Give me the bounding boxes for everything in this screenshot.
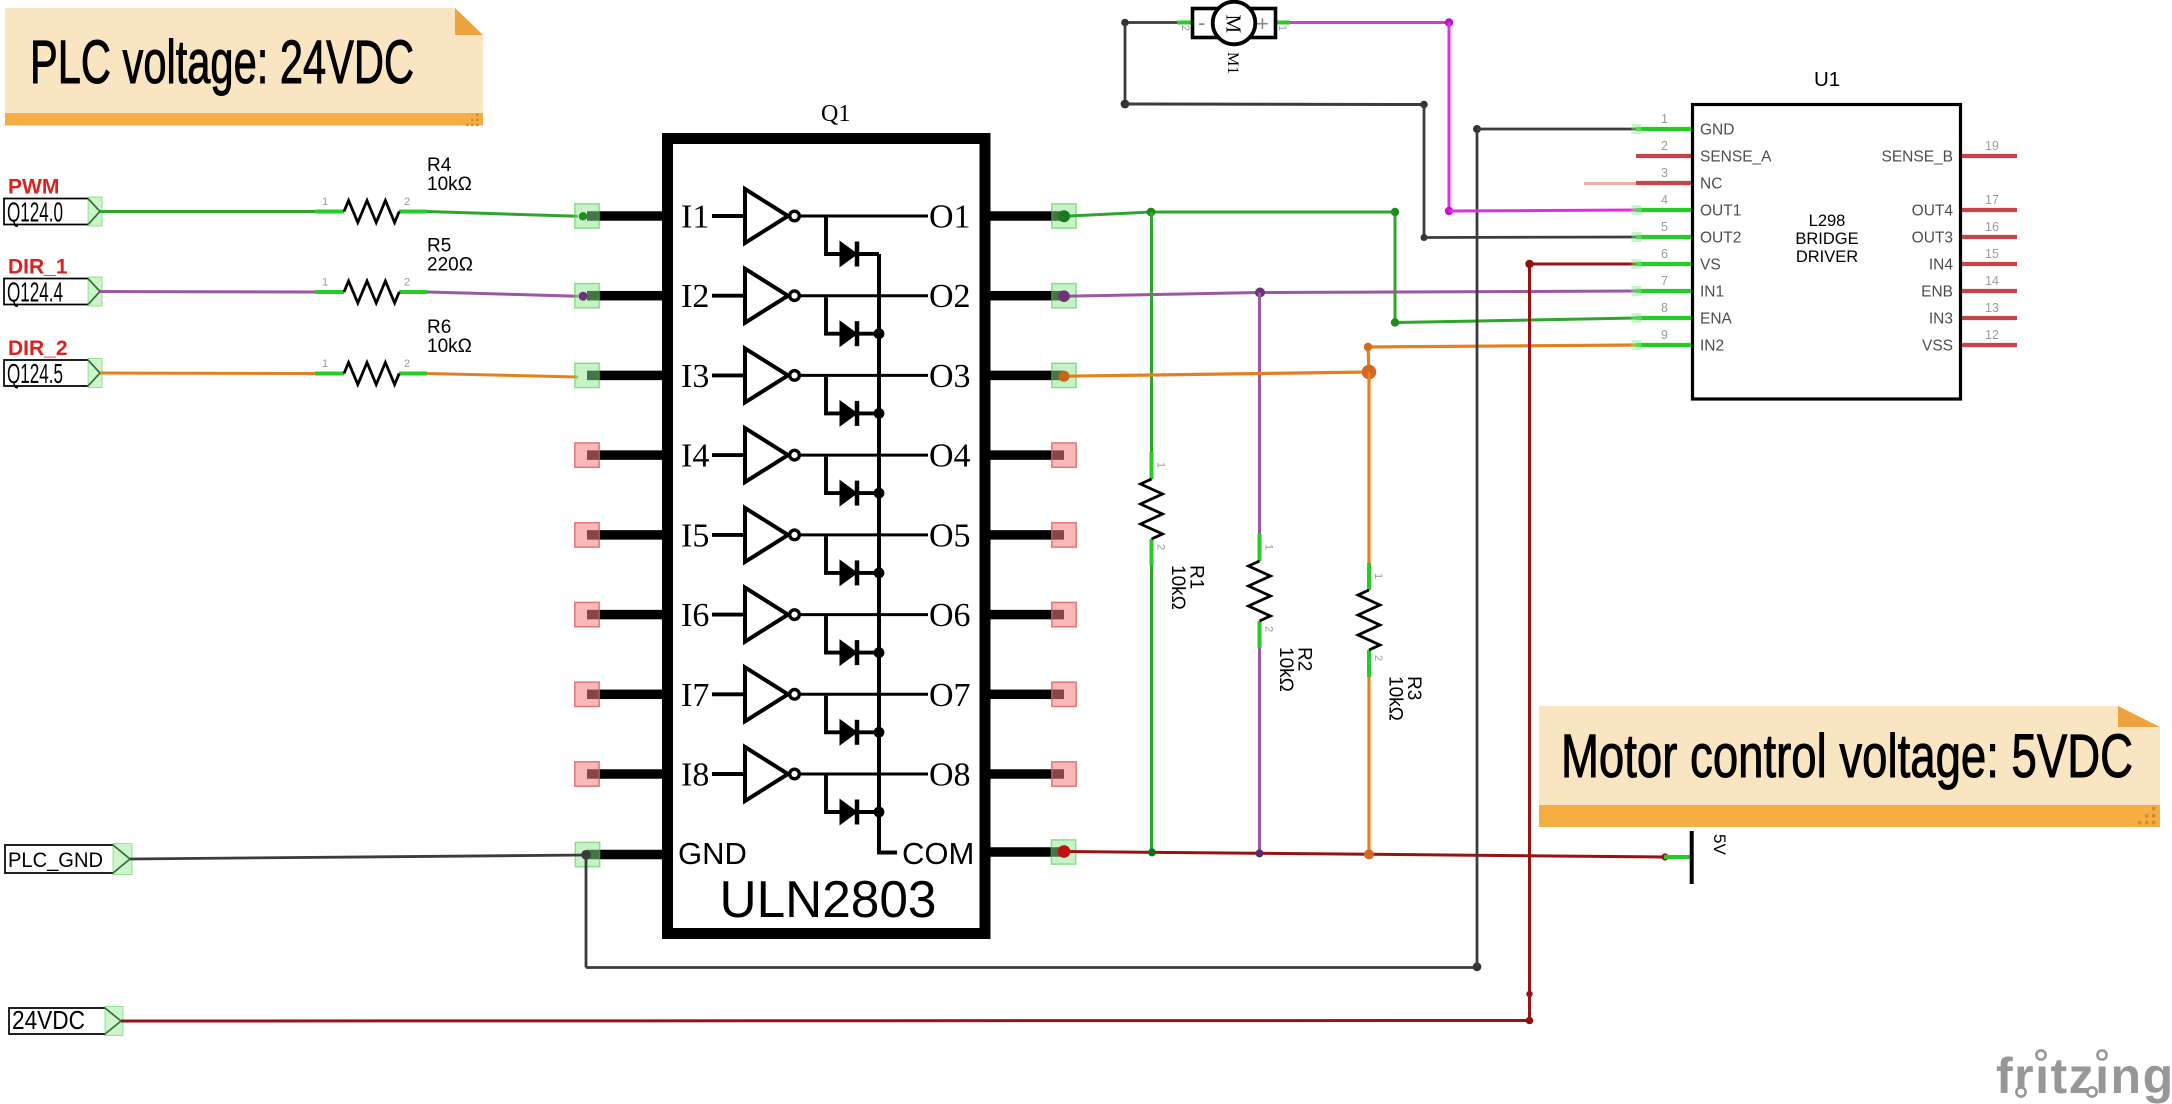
wire COM to 5V [1064, 852, 1664, 858]
svg-text:1: 1 [322, 277, 328, 289]
diode D7 [840, 720, 857, 745]
junction O3/R3 [1362, 365, 1377, 380]
wire corner down [1394, 212, 1397, 323]
bend dot gnd1 [1473, 962, 1482, 971]
wire M1 minus to corner [1125, 21, 1177, 24]
connector I5 (unconnected) [575, 523, 599, 547]
pin stub I6 [587, 610, 663, 620]
bend dot orange [1364, 343, 1372, 351]
COM bus vertical [879, 254, 897, 853]
diode D4 cathode bar [855, 481, 860, 506]
diode D1 cathode bar [855, 242, 860, 267]
net label Q124.0 (PWM) [4, 197, 102, 228]
pin stub O3 [988, 371, 1064, 381]
pin stub O4 [988, 450, 1064, 460]
svg-text:2: 2 [404, 196, 410, 208]
diode D1 branch [826, 218, 840, 255]
pin stub I1 [587, 211, 663, 221]
wire R1 top [1150, 212, 1153, 479]
net label Q124.4 (DIR_1) [4, 277, 102, 308]
diode D6 cathode bar [855, 640, 860, 665]
U1 pin 12 VSS leg [1962, 343, 2017, 347]
diode D7 cathode bar [855, 720, 860, 745]
svg-text:M1: M1 [1224, 52, 1241, 74]
svg-text:OUT3: OUT3 [1912, 230, 1953, 247]
pin stub O6 [988, 610, 1064, 620]
svg-text:9: 9 [1661, 328, 1668, 342]
resistor R5 220 [315, 236, 473, 304]
diode D4 [840, 481, 857, 506]
wire end dot at 5V [1661, 853, 1668, 860]
diode D6 to bus [857, 651, 879, 655]
inverter 6 output line [800, 613, 929, 616]
svg-text:24VDC: 24VDC [12, 1005, 85, 1035]
svg-text:I3: I3 [681, 358, 709, 395]
junction R2/rail [1256, 849, 1264, 857]
diode D1 to bus [857, 252, 879, 256]
svg-text:2: 2 [1155, 544, 1167, 550]
diode D7 to bus [857, 730, 879, 734]
U1 pin 9 IN2 leg [1636, 343, 1691, 347]
svg-text:10kΩ: 10kΩ [1275, 647, 1296, 692]
svg-text:ENB: ENB [1921, 284, 1953, 301]
diode D2 cathode bar [855, 321, 860, 346]
svg-text:OUT4: OUT4 [1912, 203, 1954, 220]
svg-text:4: 4 [1661, 193, 1668, 207]
inverter 3 input line [712, 373, 745, 377]
svg-text:7: 7 [1661, 274, 1668, 288]
svg-text:1: 1 [1276, 25, 1288, 31]
resistor R1 10k (pullup O1) [1141, 452, 1207, 610]
svg-text:O4: O4 [929, 438, 971, 475]
svg-text:OUT2: OUT2 [1700, 230, 1741, 247]
diode D8 to bus [857, 810, 879, 814]
connector I1 (connected) [575, 204, 599, 228]
diode D1 [840, 242, 857, 267]
inverter 4 bubble [790, 450, 800, 460]
svg-text:I8: I8 [681, 757, 709, 794]
bus junction D3 [874, 408, 885, 419]
diode D4 to bus [857, 491, 879, 495]
svg-text:I4: I4 [681, 438, 709, 475]
svg-text:I1: I1 [681, 199, 709, 236]
bend dot m4 [1421, 234, 1428, 241]
connector I6 (unconnected) [575, 602, 599, 626]
inverter 6 bubble [790, 610, 800, 620]
inverter 2 bubble [790, 291, 800, 301]
inverter 5 bubble [790, 530, 800, 540]
net label Q124.5 (DIR_2) [4, 358, 102, 389]
wire 24VDC label across [121, 1019, 1530, 1023]
inverter 2 triangle [745, 269, 788, 323]
svg-text:2: 2 [404, 358, 410, 370]
inverter 6 triangle [745, 588, 788, 642]
svg-text:19: 19 [1985, 139, 1999, 153]
svg-text:IN1: IN1 [1700, 284, 1724, 301]
connector I2 (connected) [575, 284, 599, 308]
wire motor loop across [1125, 103, 1424, 107]
svg-text:DIR_2: DIR_2 [8, 337, 68, 360]
wire joint dot 24v [1526, 991, 1532, 997]
svg-text:-: - [1198, 10, 1205, 35]
svg-text:2: 2 [1263, 626, 1275, 632]
pin stub O2 [988, 291, 1064, 301]
svg-text:I5: I5 [681, 517, 709, 554]
diode D3 [840, 401, 857, 426]
junction O2/R2 [1255, 288, 1265, 298]
svg-text:1: 1 [1155, 462, 1167, 468]
connector GND (connected) [575, 842, 599, 866]
svg-text:PLC_GND: PLC_GND [8, 849, 103, 872]
resistor R2 10k (pullup O2) [1249, 534, 1315, 692]
junction O1/R1 [1147, 208, 1156, 217]
inverter 6 input line [712, 613, 745, 617]
note PLC voltage [5, 8, 483, 126]
bus junction D7 [874, 727, 885, 738]
wire to OUT2 pin [1424, 236, 1636, 239]
bend dot m3 [1420, 101, 1428, 109]
wire R3 top [1367, 372, 1370, 590]
inverter 3 bubble [790, 371, 800, 381]
wire DIR_2 label to R6 [100, 372, 315, 376]
inverter 7 input line [712, 692, 745, 696]
connector O3 (connected) [1052, 363, 1076, 387]
svg-text:Q124.5: Q124.5 [7, 358, 63, 389]
bend dot vs [1525, 260, 1533, 268]
connector COM (connected) [1051, 840, 1075, 864]
inverter 5 triangle [745, 508, 788, 562]
svg-text:BRIDGE: BRIDGE [1795, 230, 1858, 248]
connector O7 (unconnected) [1052, 682, 1076, 706]
diode D2 [840, 321, 857, 346]
wire junction to corner [1151, 211, 1395, 214]
bend dot gnd2 [1473, 125, 1481, 133]
bus junction D2 [874, 328, 885, 339]
bend dot green 2 [1391, 318, 1399, 326]
svg-text:1: 1 [1372, 573, 1384, 579]
wire R3 bottom [1367, 650, 1370, 854]
inverter 4 input line [712, 453, 745, 457]
inverter 2 input line [712, 294, 745, 298]
wire to ENA [1395, 318, 1636, 323]
svg-text:NC: NC [1700, 176, 1722, 193]
L298 chip U1 body [1693, 105, 1961, 400]
svg-text:+: + [1256, 11, 1269, 36]
svg-text:5: 5 [1661, 220, 1668, 234]
svg-text:R4: R4 [427, 155, 452, 176]
5V supply symbol [1690, 831, 1729, 884]
wire R1 bottom [1150, 539, 1153, 852]
net label PLC_GND [5, 844, 132, 875]
wire junction to IN1 [1260, 291, 1636, 293]
svg-text:6: 6 [1661, 247, 1668, 261]
svg-text:1: 1 [1661, 112, 1668, 126]
wire magenta down [1448, 23, 1451, 212]
diode D3 to bus [857, 411, 879, 415]
svg-text:12: 12 [1985, 328, 1999, 342]
svg-text:O8: O8 [929, 757, 971, 794]
svg-text:Q124.4: Q124.4 [7, 277, 63, 308]
pin stub O1 [988, 211, 1064, 221]
svg-text:GND: GND [678, 836, 747, 871]
svg-text:R6: R6 [427, 317, 451, 338]
wire GND across bottom [586, 966, 1477, 969]
svg-text:O7: O7 [929, 677, 971, 714]
junction R1/rail [1148, 848, 1156, 856]
connector I7 (unconnected) [575, 682, 599, 706]
wire R2 top [1258, 293, 1261, 562]
connector O8 (unconnected) [1052, 762, 1076, 786]
svg-text:O3: O3 [929, 358, 971, 395]
wire O2 to junction [1064, 293, 1260, 297]
connector O1 (connected) [1052, 204, 1076, 228]
svg-text:VS: VS [1700, 257, 1721, 274]
wire R6 to I3 [427, 374, 578, 378]
U1 pin 7 IN1 leg [1636, 289, 1691, 293]
svg-text:Q124.0: Q124.0 [7, 197, 63, 228]
svg-text:2: 2 [1372, 655, 1384, 661]
wire GND down [585, 855, 588, 968]
junction R3/rail [1364, 849, 1374, 859]
svg-text:15: 15 [1985, 247, 1999, 261]
svg-text:1: 1 [322, 196, 328, 208]
svg-text:16: 16 [1985, 220, 1999, 234]
pin stub O5 [988, 530, 1064, 540]
diode D4 branch [826, 457, 840, 494]
bus junction D6 [874, 647, 885, 658]
diode D8 cathode bar [855, 800, 860, 825]
connector O5 (unconnected) [1052, 523, 1076, 547]
inverter 8 input line [712, 772, 745, 776]
svg-text:U1: U1 [1814, 68, 1840, 91]
bend dot green 1 [1391, 208, 1399, 216]
svg-text:IN2: IN2 [1700, 338, 1724, 355]
inverter 4 output line [800, 454, 929, 457]
net label 24VDC [9, 1005, 123, 1036]
resistor R4 10k [315, 155, 472, 223]
wire GND to U1 pin1 [1477, 128, 1636, 131]
resistor R3 10k (pullup O3) [1358, 563, 1424, 721]
inverter 1 output line [800, 215, 929, 218]
wire to IN2 [1368, 345, 1636, 347]
svg-text:5V: 5V [1710, 834, 1729, 855]
connector O2 (connected) [1052, 284, 1076, 308]
diode D5 branch [826, 536, 840, 573]
wire magenta to OUT1 [1449, 210, 1636, 211]
connector I3 (connected) [575, 363, 599, 387]
bus junction D4 [874, 488, 885, 499]
U1 pin 13 IN3 leg [1962, 316, 2017, 320]
diode D6 branch [826, 616, 840, 653]
wire 24VDC up to VS [1528, 264, 1531, 1021]
diode D3 cathode bar [855, 401, 860, 426]
U1 pin 6 VS leg [1636, 262, 1691, 266]
svg-text:GND: GND [1700, 122, 1734, 139]
U1 pin 15 IN4 leg [1962, 262, 2017, 266]
svg-text:10kΩ: 10kΩ [1167, 565, 1188, 610]
wire R5 to I2 [427, 292, 578, 296]
diode D7 branch [826, 696, 840, 733]
svg-text:17: 17 [1985, 193, 1999, 207]
pin stub I2 [587, 291, 663, 301]
svg-text:DIR_1: DIR_1 [8, 256, 68, 279]
diode D5 cathode bar [855, 560, 860, 585]
svg-text:3: 3 [1661, 166, 1668, 180]
diode D6 [840, 640, 857, 665]
inverter 8 output line [800, 773, 929, 776]
diode D3 branch [826, 377, 840, 414]
svg-text:DRIVER: DRIVER [1796, 248, 1858, 266]
inverter 7 triangle [745, 667, 788, 721]
svg-text:13: 13 [1985, 301, 1999, 315]
wire down [1124, 23, 1127, 105]
GND junction dot [581, 850, 591, 860]
bend dot m1 [1121, 19, 1129, 27]
svg-text:PLC voltage: 24VDC: PLC voltage: 24VDC [30, 28, 414, 96]
svg-text:PWM: PWM [8, 176, 59, 199]
wire R2 bottom [1258, 621, 1261, 853]
inverter 7 output line [800, 693, 929, 696]
bus junction D8 [874, 807, 885, 818]
inverter 5 output line [800, 533, 929, 536]
svg-text:OUT1: OUT1 [1700, 203, 1741, 220]
pin stub I5 [587, 530, 663, 540]
pin stub O7 [988, 690, 1064, 700]
svg-text:2: 2 [1661, 139, 1668, 153]
fritzing watermark [1996, 1048, 2172, 1104]
svg-text:COM: COM [902, 836, 974, 871]
svg-text:IN3: IN3 [1929, 311, 1953, 328]
U1 pin 3 NC leg [1636, 181, 1691, 185]
COM connector dot [1058, 845, 1071, 858]
svg-text:R5: R5 [427, 236, 451, 257]
connector I8 (unconnected) [575, 762, 599, 786]
svg-text:2: 2 [1179, 25, 1191, 31]
svg-text:M: M [1222, 15, 1246, 34]
wire down to OUT2 [1423, 105, 1426, 238]
U1 pin 2 SENSE_A leg [1636, 154, 1691, 158]
svg-text:8: 8 [1661, 301, 1668, 315]
bend dot mag2 [1445, 207, 1453, 215]
pin stub I4 [587, 450, 663, 460]
svg-text:SENSE_A: SENSE_A [1700, 149, 1772, 166]
wire end dot I2 [579, 292, 588, 301]
svg-text:10kΩ: 10kΩ [1385, 676, 1406, 721]
ratsnest NC [1584, 182, 1636, 185]
U1 pin 4 OUT1 leg [1636, 208, 1691, 212]
svg-text:I2: I2 [681, 278, 709, 315]
svg-text:10kΩ: 10kΩ [427, 336, 472, 357]
inverter 3 output line [800, 374, 929, 377]
resistor R6 10k [315, 317, 472, 385]
svg-text:Q1: Q1 [821, 101, 850, 127]
svg-text:ULN2803: ULN2803 [720, 871, 937, 929]
inverter 3 triangle [745, 348, 788, 402]
inverter 5 input line [712, 533, 745, 537]
svg-text:220Ω: 220Ω [427, 255, 473, 276]
inverter 8 triangle [745, 747, 788, 801]
inverter 2 output line [800, 294, 929, 297]
inverter 1 bubble [790, 211, 800, 221]
bend dot m2 [1121, 100, 1130, 109]
pin stub I7 [587, 690, 663, 700]
wire GND up to U1 [1476, 129, 1479, 968]
motor M1 [1177, 2, 1290, 75]
U1 pin 5 OUT2 leg [1636, 235, 1691, 239]
bend dot mag1 [1445, 18, 1453, 26]
O1 connector dot [1058, 210, 1070, 222]
connector O4 (unconnected) [1052, 443, 1076, 467]
wire PLC_GND to Q1 GND [130, 855, 586, 859]
svg-text:Motor control voltage: 5VDC: Motor control voltage: 5VDC [1561, 722, 2133, 790]
ULN2803 chip Q1 body [668, 139, 986, 934]
svg-text:1: 1 [1263, 544, 1275, 550]
diode D8 branch [826, 776, 840, 813]
diode D8 [840, 800, 857, 825]
wire R4 to I1 [427, 212, 578, 217]
bus junction D5 [874, 568, 885, 579]
U1 pin 14 ENB leg [1962, 289, 2017, 293]
wire to VS pin [1530, 263, 1637, 266]
5V leg [1664, 855, 1690, 859]
U1 pin 8 ENA leg [1636, 316, 1691, 320]
svg-text:2: 2 [404, 277, 410, 289]
connector I4 (unconnected) [575, 443, 599, 467]
svg-text:I6: I6 [681, 597, 709, 634]
svg-text:10kΩ: 10kΩ [427, 174, 472, 195]
diode D2 to bus [857, 332, 879, 336]
U1 pin 16 OUT3 leg [1962, 235, 2017, 239]
svg-text:O2: O2 [929, 278, 971, 315]
svg-text:O6: O6 [929, 597, 971, 634]
connector O6 (unconnected) [1052, 602, 1076, 626]
wire PWM label to R4 [100, 210, 315, 213]
diode D5 to bus [857, 571, 879, 575]
wire O1 to junction [1064, 212, 1151, 216]
svg-text:14: 14 [1985, 274, 1999, 288]
inverter 4 triangle [745, 428, 788, 482]
pin stub GND [587, 850, 663, 860]
U1 pin 17 OUT4 leg [1962, 208, 2017, 212]
svg-text:IN4: IN4 [1929, 257, 1954, 274]
wire DIR_1 label to R5 [100, 290, 315, 294]
svg-text:I7: I7 [681, 677, 709, 714]
pin stub COM [988, 847, 1064, 857]
svg-text:O5: O5 [929, 517, 971, 554]
wire junction up [1368, 347, 1369, 372]
inverter 8 bubble [790, 769, 800, 779]
inverter 7 bubble [790, 690, 800, 700]
pin stub O8 [988, 769, 1064, 779]
pin stub I8 [587, 769, 663, 779]
svg-text:O1: O1 [929, 199, 971, 236]
U1 pin 1 GND leg [1636, 127, 1691, 131]
note Motor control voltage [1539, 706, 2160, 827]
svg-text:VSS: VSS [1922, 338, 1953, 355]
svg-text:SENSE_B: SENSE_B [1881, 149, 1953, 166]
inverter 1 triangle [745, 189, 788, 243]
pin stub I3 [587, 371, 663, 381]
O2 connector dot [1058, 290, 1070, 302]
wire O3 to junction [1064, 372, 1369, 376]
wire end dot I1 [579, 212, 587, 220]
wire M1 plus to corner [1290, 21, 1449, 24]
inverter 1 input line [712, 214, 745, 218]
svg-text:ENA: ENA [1700, 311, 1733, 328]
svg-text:L298: L298 [1809, 212, 1846, 230]
diode D2 branch [826, 297, 840, 334]
U1 pin 19 SENSE_B leg [1962, 154, 2017, 158]
